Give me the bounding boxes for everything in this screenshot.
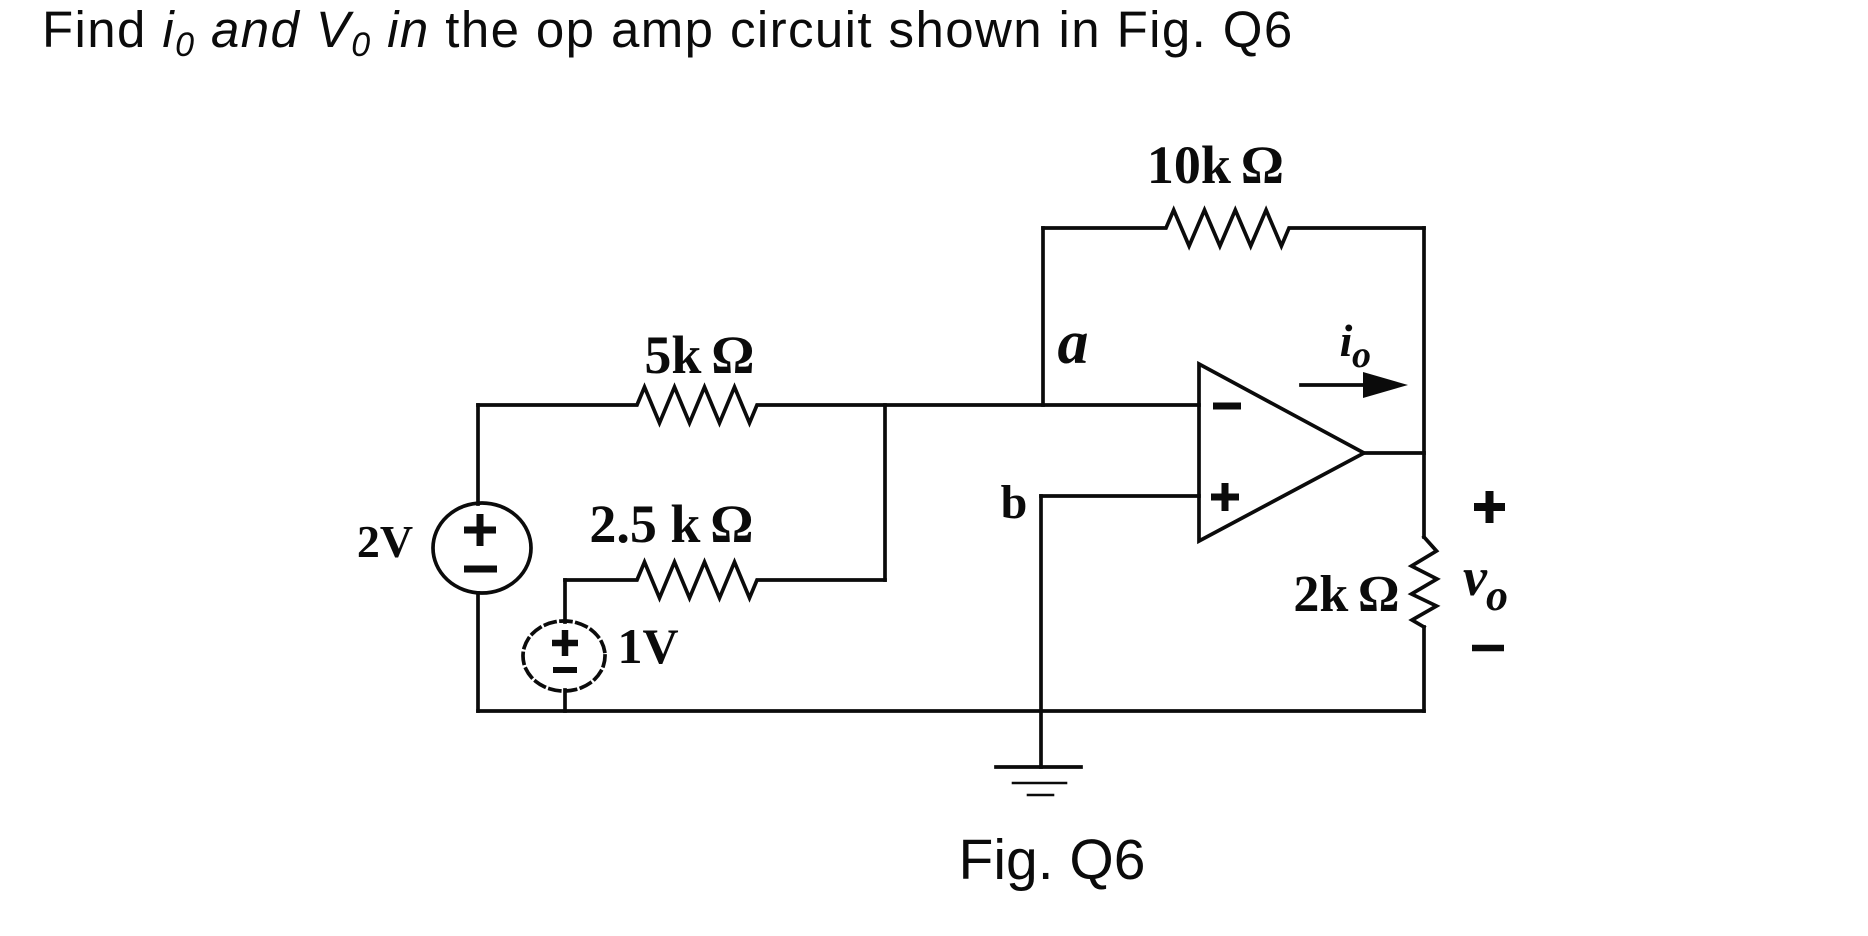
svg-text:b: b xyxy=(1001,476,1028,529)
svg-text:10k Ω: 10k Ω xyxy=(1147,135,1283,195)
svg-text:1V: 1V xyxy=(617,618,678,674)
svg-text:2k Ω: 2k Ω xyxy=(1293,566,1398,623)
svg-text:5k Ω: 5k Ω xyxy=(644,325,753,385)
svg-text:a: a xyxy=(1058,309,1089,377)
svg-text:Find i0 and V0 in the op amp c: Find i0 and V0 in the op amp circuit sho… xyxy=(42,1,1294,64)
svg-text:2.5 k Ω: 2.5 k Ω xyxy=(589,494,752,554)
svg-text:v: v xyxy=(1463,547,1488,607)
svg-text:2V: 2V xyxy=(357,516,413,567)
svg-text:Fig. Q6: Fig. Q6 xyxy=(959,828,1146,892)
svg-text:o: o xyxy=(1352,334,1371,376)
svg-text:o: o xyxy=(1486,571,1508,620)
svg-text:i: i xyxy=(1340,315,1353,366)
